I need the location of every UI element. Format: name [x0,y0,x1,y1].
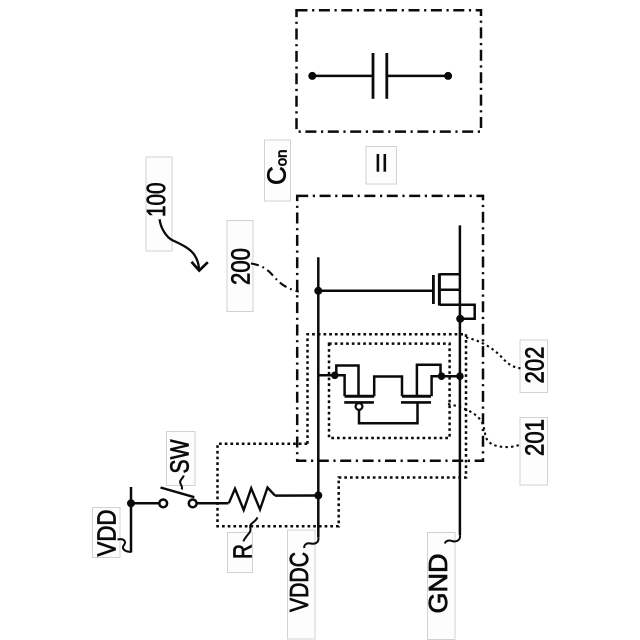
leader 202 (dotted curve) [466,338,521,369]
box 201 (dotted) [329,344,450,438]
svg-text:VDDC: VDDC [284,552,314,612]
svg-text:VDD: VDD [92,510,122,557]
capacitor Con: right wire [387,75,448,78]
node VDDC gate junction dot [314,287,322,295]
transistor Q2 source lead [417,365,441,396]
label background 202 [520,340,548,393]
transistor M1 channel bar [438,273,441,305]
transistor Q1 channel bar [345,395,375,398]
node VDDC dot [314,491,322,499]
capacitor Con: left plate [372,53,375,99]
transistor Q2 channel bar [402,395,431,398]
wire gate of M1 [318,290,433,293]
wire Q1 drain to Q2 drain [374,377,402,397]
equivalence symbol (rotated equals sign) [377,154,380,172]
wire VDD stub [130,487,133,553]
label background 201 [520,418,548,486]
svg-text:201: 201 [520,419,550,456]
leader arrow 100 [160,219,199,268]
capacitor Con: right plate [385,53,388,99]
label background equals [366,147,397,185]
label background VDD [93,508,121,558]
label background 200 [227,221,253,312]
label background R [228,533,253,573]
node Q1 source dot [331,372,339,380]
transistor M1 gate bar [432,275,435,304]
squiggle leader R [243,517,257,541]
wire GND rail [459,225,462,535]
transistor Q1 gate bar [344,401,374,404]
leader 201 (dotted curve) [448,404,522,447]
svg-text:R: R [228,544,258,559]
squiggle leader VDD [118,539,132,552]
svg-text:SW: SW [165,439,195,473]
box 200 (dash-dot) [297,196,483,461]
label background SW [167,432,196,486]
transistor Q1 gate bubble [356,403,363,410]
wire gate interconnect [359,402,418,423]
box 202 (dotted outline around R and 201) [218,334,467,526]
capacitor Con: left wire [312,75,373,78]
node M1 source junction dot [456,315,464,323]
wire VDDC rail [317,257,320,537]
capacitor Con: right terminal dot [444,72,452,80]
transistor Q2 body stub [432,376,441,396]
transistor Q1 source lead [336,366,358,397]
wire Q2 source to GND rail [442,375,460,378]
transistor M1 source lead [439,305,474,319]
svg-text:200: 200 [226,248,256,285]
squiggle leader SW [180,476,184,490]
label background GND [428,533,456,640]
label background 100 [146,157,172,251]
label background Con [265,140,291,201]
svg-text:GND: GND [423,554,453,614]
capacitor Con: left terminal dot [308,72,316,80]
box Con (dash-dot) [297,10,482,131]
svg-text:100: 100 [141,183,171,218]
switch SW left contact [159,500,167,508]
transistor M1 body lead [439,289,460,292]
switch SW right contact [189,500,197,508]
transistor Q1 body stub [337,375,345,396]
transistor Q2 gate bar [401,401,431,404]
node GND rail junction dot [456,372,464,380]
wire switch to resistor [197,502,229,505]
squiggle leader VDDC [304,537,318,548]
label background VDDC [288,530,316,639]
squiggle leader GND [445,535,460,544]
leader 200 (dash-dot curve) [251,264,299,292]
transistor M1 drain lead [439,273,460,276]
node Q2 source dot [438,372,446,380]
wire VDDC to Q1 [318,374,335,377]
node VDD junction dot [127,499,135,507]
wire VDD to switch [131,502,159,505]
svg-text:202: 202 [520,347,550,384]
wire resistor to VDDC node [275,494,318,497]
switch SW blade [161,488,195,498]
resistor R zigzag [229,488,275,511]
